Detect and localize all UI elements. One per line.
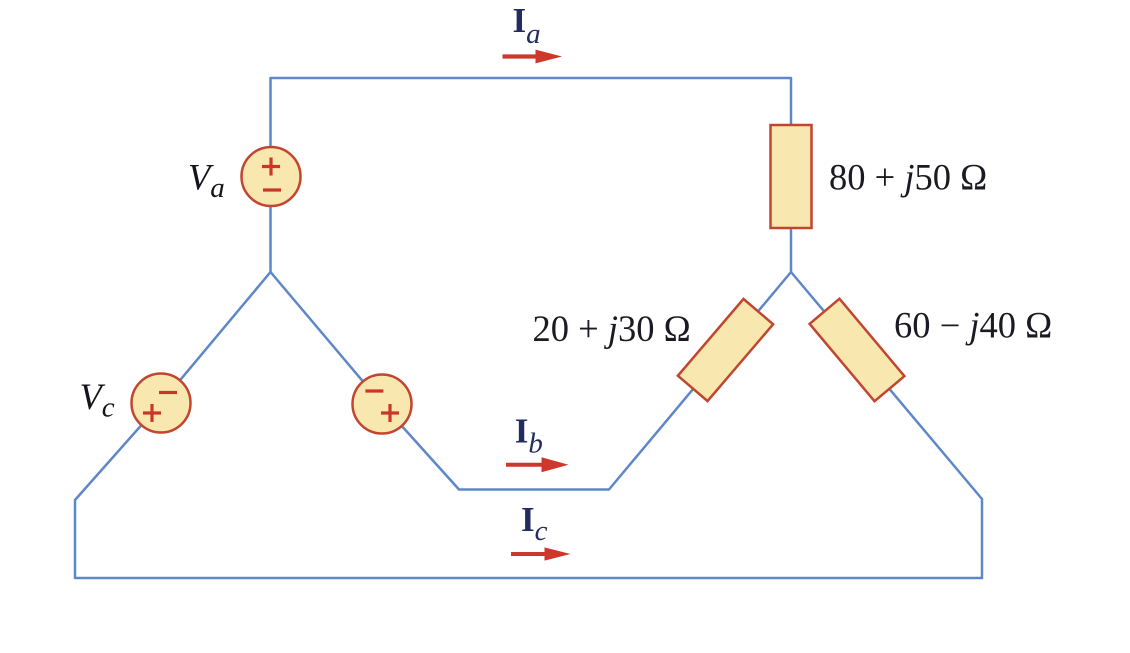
svg-text:20 + j30 Ω: 20 + j30 Ω <box>533 308 691 349</box>
svg-text:Vc: Vc <box>80 376 115 424</box>
svg-text:60 − j40 Ω: 60 − j40 Ω <box>894 305 1052 346</box>
svg-text:80 + j50 Ω: 80 + j50 Ω <box>829 157 987 198</box>
svg-text:Ia: Ia <box>513 1 541 50</box>
svg-text:Va: Va <box>188 157 225 205</box>
svg-text:Ib: Ib <box>515 412 543 460</box>
svg-text:Ic: Ic <box>521 500 548 547</box>
